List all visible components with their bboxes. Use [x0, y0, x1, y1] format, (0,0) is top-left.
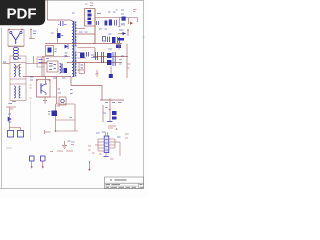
diode D15: [118, 29, 129, 36]
rectifier D16: [107, 53, 112, 65]
transformer T2: [60, 64, 68, 74]
wire aux right: [26, 56, 47, 77]
label bus: [53, 77, 66, 79]
wire fb corner: [45, 130, 51, 134]
wire aux row: [42, 57, 122, 77]
wire AC feed: [47, 0, 71, 20]
label D17: [127, 64, 131, 68]
wire mid rail: [42, 56, 70, 58]
wire emitter: [37, 96, 57, 98]
transformer T1: [72, 20, 96, 77]
diode D10: [105, 20, 113, 26]
label R2: [85, 3, 93, 6]
diode D14: [116, 45, 121, 49]
capacitor C19: [96, 52, 98, 60]
ground mid: [62, 141, 75, 149]
feedback ladder: [48, 104, 78, 132]
page border: [0, 0, 145, 189]
label F1: [30, 77, 34, 80]
capacitor C16: [115, 20, 117, 26]
label C11: [46, 57, 68, 59]
title block: [105, 177, 144, 189]
capacitor C21: [113, 52, 115, 66]
diode D12: [129, 18, 134, 25]
label row2: [99, 29, 124, 34]
relay box: [37, 57, 44, 67]
label R20: [133, 10, 137, 12]
driver box U2: [47, 61, 58, 72]
capacitor CY1: [30, 156, 35, 169]
wire sec row3: [93, 48, 128, 57]
resistor R4: [51, 29, 64, 44]
capacitor C17: [108, 37, 110, 43]
transistor Q3: [36, 79, 50, 97]
ground sec: [96, 70, 99, 76]
diode D20: [88, 161, 90, 171]
diode D2: [6, 104, 16, 128]
ground pri: [43, 97, 47, 104]
snubber box: [46, 46, 58, 56]
wire gate row: [45, 9, 95, 44]
terminal L: [3, 62, 11, 64]
label R25: [119, 60, 122, 65]
label Q3: [30, 85, 32, 98]
label T2: [65, 53, 68, 56]
wire sec row1: [95, 18, 138, 23]
resistor R22: [103, 37, 106, 42]
label row3: [108, 48, 112, 50]
label U5: [108, 126, 117, 130]
label Q2: [91, 55, 97, 58]
svg-text:PDF: PDF: [7, 6, 37, 23]
label VCC: [58, 89, 73, 94]
wire bus: [23, 77, 102, 101]
capacitor C1: [58, 21, 67, 26]
output filter cluster: [100, 98, 124, 122]
IC U5: [88, 132, 129, 159]
fold line: [30, 100, 32, 141]
wire standby drop: [46, 77, 57, 105]
diode D13: [112, 37, 116, 43]
AC inlet J1: [8, 29, 24, 46]
secondary label row: [97, 10, 124, 14]
transistor Q1: [85, 9, 96, 27]
label D5: [79, 31, 88, 33]
capacitor C18: [118, 37, 120, 43]
capacitor CY2: [41, 156, 46, 169]
label C2: [72, 12, 75, 14]
capacitor C9: [87, 52, 89, 57]
varistor RV1: [29, 29, 37, 39]
diode D7: [80, 53, 85, 59]
capacitor C15: [97, 21, 99, 25]
diode D6: [65, 44, 69, 49]
resistor R21: [118, 18, 121, 27]
opto U4: [59, 97, 66, 105]
filter transformer L2: [10, 56, 26, 102]
connector CN2: [8, 128, 24, 138]
choke L1: [8, 47, 24, 60]
diode D11: [122, 17, 126, 26]
snubber T1 box: [79, 63, 85, 74]
label L5: [121, 55, 124, 57]
PDF badge: [0, 0, 45, 25]
resistor R23: [118, 38, 125, 50]
wire right drop: [111, 44, 127, 78]
note text: [6, 147, 12, 149]
capacitor C20: [102, 52, 104, 63]
wire sec v1: [94, 18, 96, 44]
label row mid: [50, 150, 73, 153]
wire sec row2: [93, 43, 122, 45]
resistor R26: [109, 74, 113, 78]
